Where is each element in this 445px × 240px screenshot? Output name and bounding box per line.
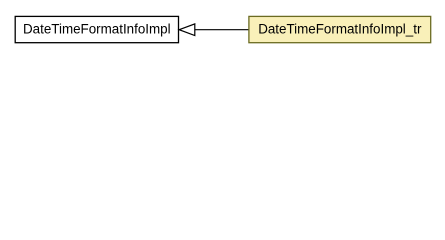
wire inheritance line (195, 29, 249, 31)
inheritance arrowhead (hollow triangle) (179, 24, 195, 36)
class box DateTimeFormatInfoImpl (15, 16, 178, 42)
svg-text:DateTimeFormatInfoImpl_tr: DateTimeFormatInfoImpl_tr (258, 22, 422, 37)
svg-text:DateTimeFormatInfoImpl: DateTimeFormatInfoImpl (23, 22, 171, 37)
class box DateTimeFormatInfoImpl_tr (highlighted) (249, 16, 431, 42)
